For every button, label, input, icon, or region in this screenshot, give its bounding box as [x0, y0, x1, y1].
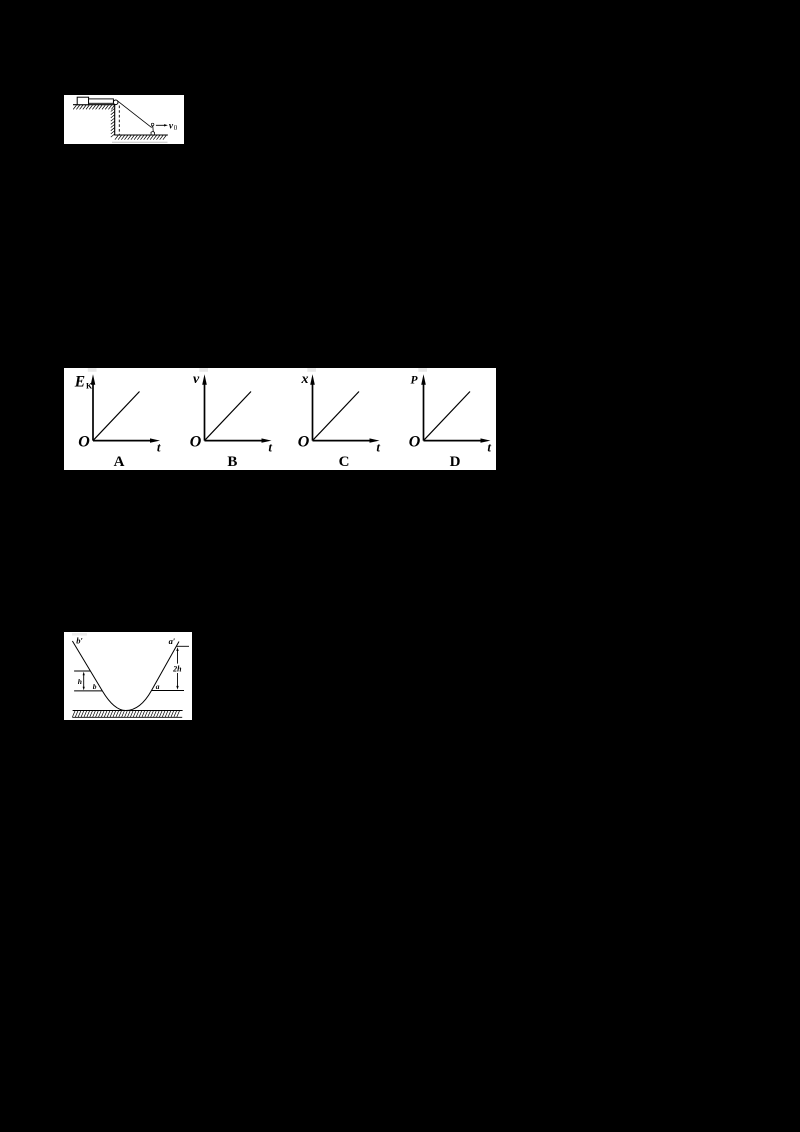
svg-text:2h: 2h: [172, 665, 182, 674]
svg-text:h: h: [78, 677, 82, 686]
svg-text:a: a: [156, 682, 160, 691]
svg-text:t: t: [268, 440, 272, 455]
svg-text:K: K: [86, 382, 93, 391]
svg-text:b: b: [93, 682, 97, 691]
svg-text:v: v: [193, 372, 200, 387]
svg-text:O: O: [298, 433, 310, 450]
svg-text:0: 0: [174, 125, 178, 132]
svg-text:b′: b′: [76, 636, 83, 646]
svg-text:t: t: [376, 440, 380, 455]
svg-text:t: t: [157, 440, 161, 455]
svg-text:O: O: [409, 433, 421, 450]
svg-text:x: x: [301, 372, 309, 387]
svg-text:O: O: [190, 433, 202, 450]
svg-text:D: D: [450, 454, 461, 470]
svg-text:a′: a′: [169, 636, 176, 646]
svg-text:A: A: [114, 454, 125, 470]
svg-text:C: C: [339, 454, 350, 470]
svg-text:P: P: [411, 375, 419, 387]
svg-text:E: E: [74, 373, 85, 390]
svg-text:B: B: [227, 454, 237, 470]
svg-text:t: t: [487, 440, 491, 455]
svg-text:O: O: [78, 433, 90, 450]
